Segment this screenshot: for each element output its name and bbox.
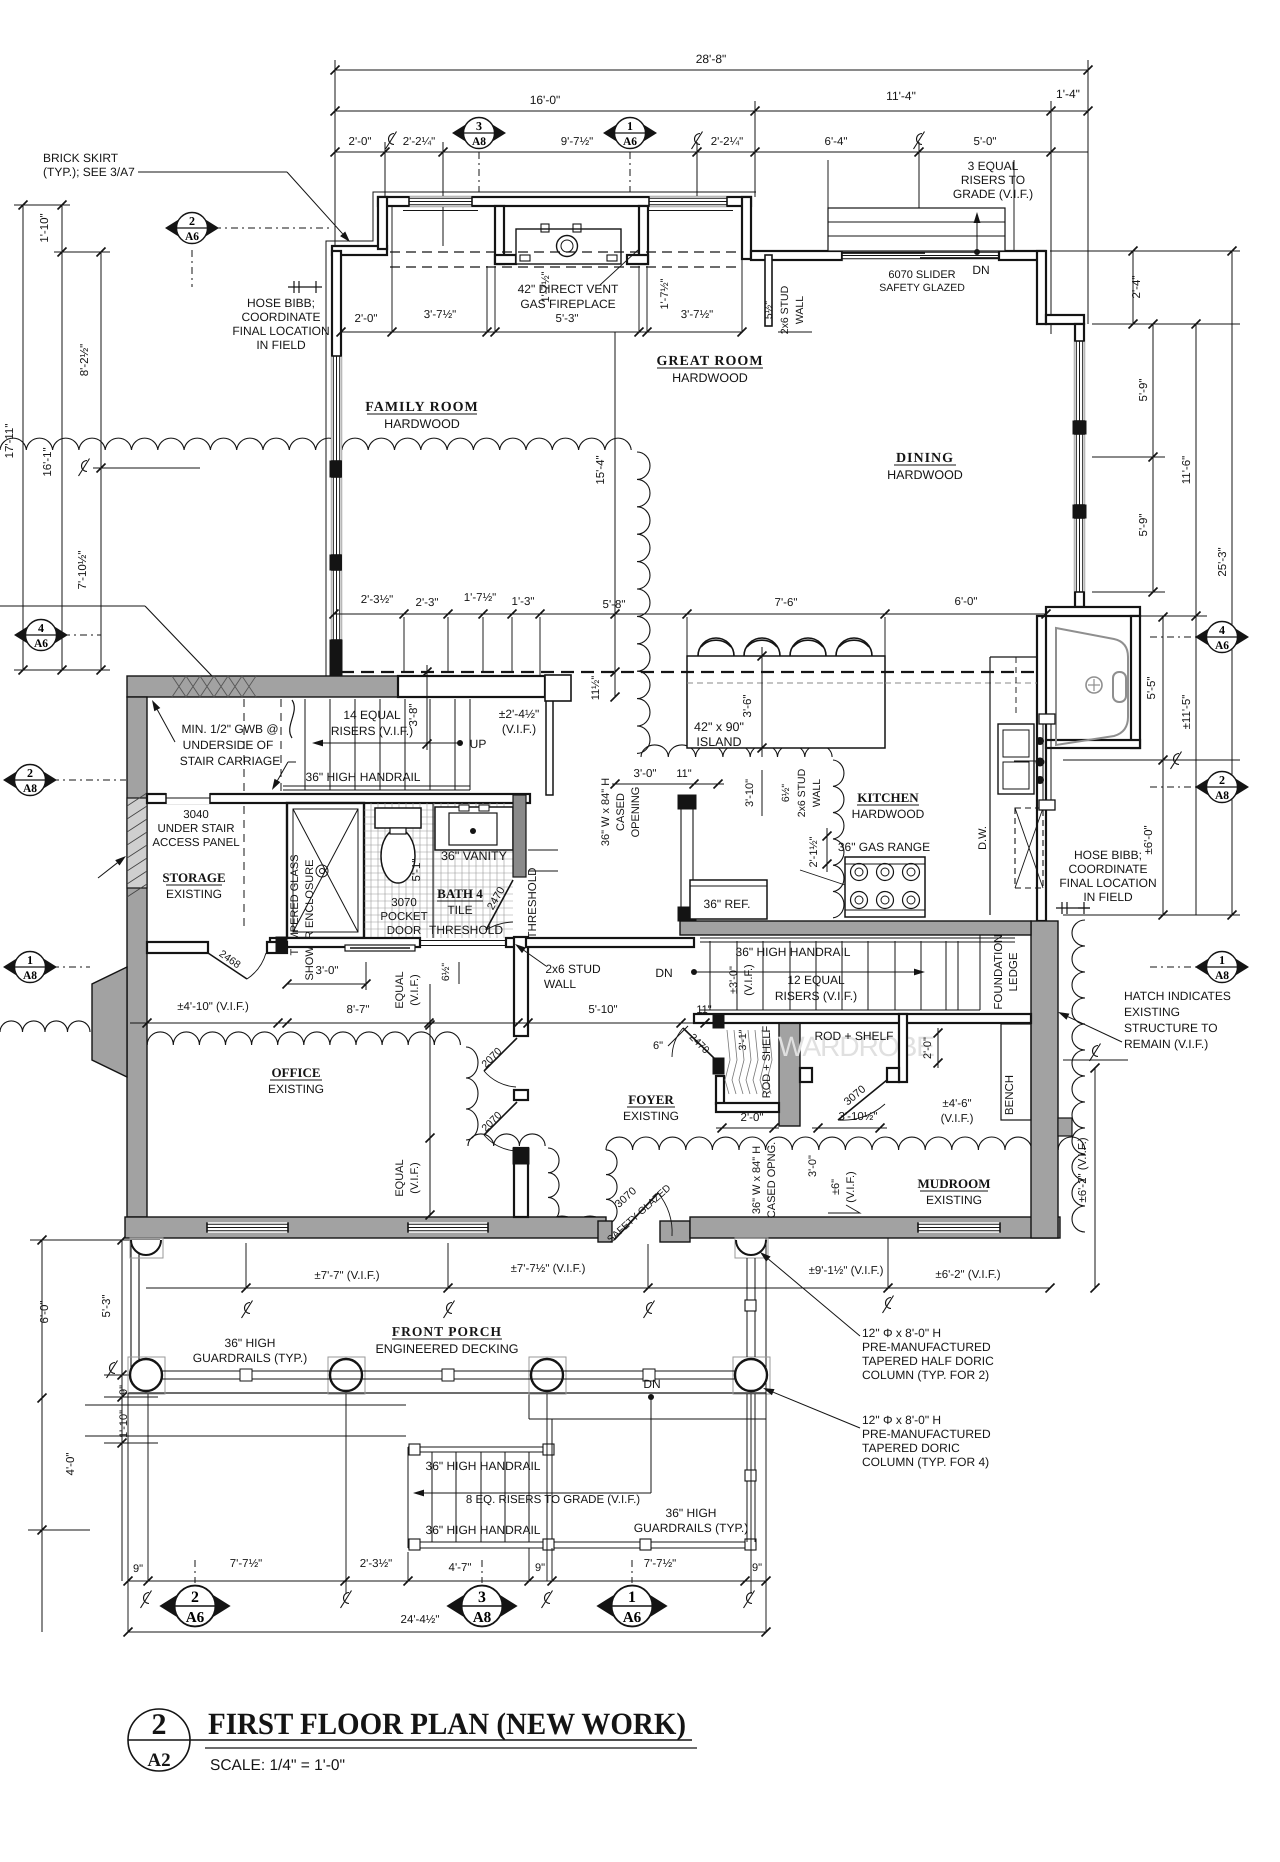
steps right guardrail bbox=[746, 1394, 748, 1542]
svg-text:2'-1½": 2'-1½" bbox=[808, 836, 820, 867]
porch half column NE bbox=[735, 1238, 768, 1258]
marker 3/A8 bottom bbox=[446, 1586, 517, 1627]
svg-text:CASED OPNG.: CASED OPNG. bbox=[766, 1142, 778, 1218]
svg-text:3'-7½": 3'-7½" bbox=[424, 309, 457, 321]
svg-text:±9'-1½" (V.I.F.): ±9'-1½" (V.I.F.) bbox=[809, 1265, 884, 1277]
svg-text:3'-0": 3'-0" bbox=[634, 768, 657, 780]
svg-text:2: 2 bbox=[1219, 773, 1225, 787]
mullion dining east b bbox=[1073, 505, 1086, 518]
stair handrail bbox=[283, 785, 470, 787]
svg-text:±2'-4½": ±2'-4½" bbox=[499, 707, 540, 721]
svg-text:WALL: WALL bbox=[544, 977, 577, 991]
svg-text:COORDINATE: COORDINATE bbox=[1068, 862, 1147, 876]
wall stub 2x6 great room bbox=[765, 255, 772, 326]
svg-text:BATH 4: BATH 4 bbox=[437, 886, 483, 901]
wall stair hall east stub bbox=[546, 697, 553, 795]
foyer dim line y1023 bbox=[130, 1022, 694, 1024]
top steps 3 risers bbox=[828, 208, 1005, 251]
island counter line bbox=[687, 682, 885, 684]
svg-text:IN FIELD: IN FIELD bbox=[1083, 890, 1133, 904]
marker 4/A6 left bbox=[14, 620, 68, 651]
dim 3'-0 and 11 kitchen bbox=[612, 783, 724, 785]
kitchen sink bbox=[998, 724, 1034, 794]
svg-text:6½": 6½" bbox=[780, 784, 792, 803]
svg-text:9": 9" bbox=[752, 1562, 762, 1574]
gray wall office south bbox=[125, 1217, 606, 1238]
svg-text:5'-9": 5'-9" bbox=[1138, 514, 1150, 537]
svg-text:6'-0": 6'-0" bbox=[39, 1301, 51, 1324]
window left wall 2 bbox=[331, 477, 341, 555]
svg-text:17'-11": 17'-11" bbox=[4, 424, 16, 459]
door 3070 closet2 bbox=[838, 1080, 887, 1120]
svg-text:EXISTING: EXISTING bbox=[1124, 1005, 1180, 1019]
porch column S3 bbox=[529, 1357, 566, 1394]
window top bay right bbox=[649, 196, 727, 206]
svg-text:HARDWOOD: HARDWOOD bbox=[672, 371, 748, 385]
closet2 walls bbox=[899, 1014, 907, 1082]
bottom dim ext verticals bbox=[127, 1393, 129, 1632]
steps handrail top bbox=[408, 1446, 552, 1448]
cloud kitchen horizontal bbox=[641, 745, 832, 757]
window dining east 1 bbox=[1074, 341, 1084, 421]
gray bay chimney left bbox=[92, 967, 127, 1077]
window office south 1 bbox=[207, 1222, 288, 1232]
svg-text:3'-6": 3'-6" bbox=[742, 695, 754, 718]
svg-text:36" HIGH HANDRAIL: 36" HIGH HANDRAIL bbox=[426, 1459, 541, 1473]
dim line 16'-0" / 11'-4" / 1'-4" bbox=[335, 110, 1088, 112]
door 2070 b bbox=[484, 1102, 517, 1135]
cloud family room horizontal bbox=[0, 438, 631, 450]
svg-text:36" W x 84" H: 36" W x 84" H bbox=[751, 1146, 763, 1214]
svg-text:BRICK SKIRT: BRICK SKIRT bbox=[43, 151, 119, 165]
porch grade lines bbox=[85, 1404, 406, 1406]
svg-text:3'-8": 3'-8" bbox=[408, 704, 420, 727]
svg-text:A8: A8 bbox=[473, 1610, 492, 1626]
svg-text:EXISTING: EXISTING bbox=[926, 1193, 982, 1207]
svg-text:4'-0": 4'-0" bbox=[65, 1453, 77, 1476]
svg-text:2'-3½": 2'-3½" bbox=[360, 1558, 393, 1570]
svg-text:1'-7½": 1'-7½" bbox=[540, 271, 552, 302]
svg-text:(V.I.F.): (V.I.F.) bbox=[845, 1171, 857, 1202]
svg-text:3'-10": 3'-10" bbox=[744, 779, 756, 807]
cloud family room vertical drop bbox=[637, 452, 650, 753]
porch dim centerlines bbox=[242, 1301, 253, 1319]
steps treads bbox=[407, 1447, 409, 1548]
section marker 1/A6 top bbox=[603, 118, 657, 149]
svg-text:28'-8": 28'-8" bbox=[696, 52, 727, 66]
right dim 11'-6" bbox=[1195, 324, 1197, 616]
svg-text:6": 6" bbox=[653, 1040, 663, 1052]
fireplace return right bbox=[639, 206, 648, 264]
gray wall front door jamb left bbox=[598, 1221, 612, 1242]
dashed header line bay bbox=[390, 251, 742, 253]
svg-text:OFFICE: OFFICE bbox=[271, 1065, 320, 1080]
right centerline sym bbox=[1171, 752, 1182, 770]
svg-text:11": 11" bbox=[696, 1004, 711, 1016]
dim vline equal office bbox=[429, 984, 431, 1215]
door 2468 storage bbox=[208, 953, 247, 979]
svg-text:7'-7½": 7'-7½" bbox=[230, 1558, 263, 1570]
svg-text:3070: 3070 bbox=[391, 897, 417, 909]
svg-text:TAPERED HALF DORIC: TAPERED HALF DORIC bbox=[862, 1354, 994, 1368]
svg-text:11'-4": 11'-4" bbox=[886, 89, 916, 103]
svg-text:ACCESS PANEL: ACCESS PANEL bbox=[152, 837, 240, 849]
tub room door opening bbox=[1039, 714, 1055, 724]
svg-text:UNDERSIDE OF: UNDERSIDE OF bbox=[183, 738, 274, 752]
right ext line y324 bbox=[1092, 323, 1240, 325]
porch guardrail south bbox=[162, 1370, 735, 1372]
svg-text:COLUMN (TYP. FOR 4): COLUMN (TYP. FOR 4) bbox=[862, 1455, 989, 1469]
svg-text:3'-1": 3'-1" bbox=[737, 1029, 749, 1050]
brick skirt outline bbox=[326, 192, 756, 676]
bottom dim centerlines bbox=[141, 1591, 152, 1609]
svg-text:±6": ±6" bbox=[830, 1179, 842, 1195]
svg-text:9": 9" bbox=[133, 1563, 143, 1575]
svg-text:1: 1 bbox=[628, 1588, 636, 1606]
svg-text:5'-10": 5'-10" bbox=[588, 1004, 617, 1016]
cloud mudroom east bbox=[1072, 920, 1085, 1232]
porch left edge bbox=[130, 1243, 132, 1380]
svg-text:SCALE: 1/4" = 1'-0": SCALE: 1/4" = 1'-0" bbox=[210, 1757, 345, 1774]
steps dn leader bbox=[648, 1394, 654, 1400]
svg-text:2'-0": 2'-0" bbox=[741, 1112, 764, 1124]
svg-text:(TYP.); SEE 3/A7: (TYP.); SEE 3/A7 bbox=[43, 165, 135, 179]
fireplace unit 42in bbox=[516, 229, 621, 264]
right ext line y251 bbox=[1050, 250, 1240, 252]
svg-text:15'-4": 15'-4" bbox=[595, 455, 607, 484]
svg-text:2'-0": 2'-0" bbox=[355, 313, 378, 325]
cloud kitchen vertical at range bbox=[833, 760, 844, 918]
svg-text:1'-10": 1'-10" bbox=[39, 213, 51, 242]
svg-text:ROD + SHELF: ROD + SHELF bbox=[814, 1029, 893, 1043]
svg-text:MIN. 1/2" GWB @: MIN. 1/2" GWB @ bbox=[181, 722, 278, 736]
mudroom bench bbox=[1001, 1024, 1031, 1120]
right dim 2'-4" bbox=[1132, 251, 1134, 324]
dashed line floor above bbox=[341, 671, 1037, 673]
svg-text:24'-4½": 24'-4½" bbox=[401, 1614, 440, 1626]
left dim bars bbox=[14, 204, 70, 206]
svg-text:5'-9": 5'-9" bbox=[1138, 379, 1150, 402]
svg-text:2: 2 bbox=[189, 214, 195, 228]
svg-text:36" HIGH HANDRAIL: 36" HIGH HANDRAIL bbox=[426, 1523, 541, 1537]
bottom overall dim 24'-4.5 bbox=[128, 1631, 766, 1633]
svg-text:DN: DN bbox=[643, 1377, 660, 1391]
svg-text:THRESHOLD: THRESHOLD bbox=[527, 868, 539, 939]
svg-text:12" Φ x 8'-0" H: 12" Φ x 8'-0" H bbox=[862, 1326, 941, 1340]
svg-text:2'-3½": 2'-3½" bbox=[361, 594, 394, 606]
island bbox=[687, 656, 885, 748]
svg-text:EQUAL: EQUAL bbox=[394, 1159, 406, 1196]
svg-text:DN: DN bbox=[972, 263, 989, 277]
door 2470 closet1 bbox=[683, 1028, 716, 1060]
svg-text:KITCHEN: KITCHEN bbox=[857, 790, 919, 805]
wall storage south bbox=[147, 942, 208, 953]
cloud office east drop bbox=[466, 1047, 478, 1140]
svg-text:PRE-MANUFACTURED: PRE-MANUFACTURED bbox=[862, 1340, 991, 1354]
kitchen counter right bbox=[989, 657, 991, 915]
svg-text:1'-3": 1'-3" bbox=[512, 596, 535, 608]
gray wall mudroom south bbox=[690, 1217, 1060, 1238]
svg-text:3'-7½": 3'-7½" bbox=[681, 309, 714, 321]
dishwasher bbox=[1015, 808, 1043, 888]
svg-text:9": 9" bbox=[535, 1562, 545, 1574]
storage dashed lines bbox=[243, 699, 245, 793]
wall family room south band bbox=[398, 676, 545, 697]
wall dining NE vertical bbox=[1037, 251, 1046, 324]
title rule bbox=[128, 1739, 692, 1741]
svg-text:A6: A6 bbox=[623, 136, 637, 148]
shower enclosure bbox=[287, 803, 364, 938]
left dim vline x62 bbox=[61, 205, 63, 670]
svg-text:5'-1": 5'-1" bbox=[411, 859, 423, 882]
svg-text:11'-6": 11'-6" bbox=[1181, 456, 1193, 484]
wall bath north bbox=[147, 794, 530, 803]
svg-text:2: 2 bbox=[191, 1588, 199, 1606]
svg-text:A6: A6 bbox=[34, 638, 48, 650]
svg-text:±7'-7" (V.I.F.): ±7'-7" (V.I.F.) bbox=[314, 1270, 379, 1282]
dim 3'-6 island bbox=[761, 647, 763, 757]
gray wall closet center bbox=[779, 1014, 800, 1126]
wall tub room south bbox=[1046, 740, 1140, 748]
svg-text:GRADE (V.I.F.): GRADE (V.I.F.) bbox=[953, 187, 1033, 201]
hatch leader bbox=[1068, 1017, 1122, 1042]
dim ext verticals y614 bbox=[403, 617, 405, 672]
svg-text:3 EQUAL: 3 EQUAL bbox=[968, 159, 1019, 173]
svg-text:6'-0": 6'-0" bbox=[955, 596, 978, 608]
svg-text:±4'-10" (V.I.F.): ±4'-10" (V.I.F.) bbox=[177, 1001, 249, 1013]
marker 2/A6 bottom bbox=[159, 1586, 230, 1627]
porch right guardrail bbox=[746, 1258, 748, 1357]
svg-text:9'-7½": 9'-7½" bbox=[561, 136, 594, 148]
svg-text:(V.I.F.): (V.I.F.) bbox=[409, 974, 421, 1005]
wall closets north bbox=[694, 1014, 1031, 1023]
left dim vline x101 bbox=[100, 252, 102, 670]
column note 1 leader bbox=[768, 1259, 860, 1336]
wall left exterior bbox=[332, 251, 341, 676]
dim line y332 bbox=[341, 331, 742, 333]
svg-text:5'-3": 5'-3" bbox=[556, 313, 579, 325]
section marker 3/A8 top bbox=[452, 118, 506, 149]
svg-text:7'-10½": 7'-10½" bbox=[77, 551, 89, 590]
svg-text:(V.I.F.): (V.I.F.) bbox=[743, 964, 755, 995]
left dim vline x23 bbox=[22, 205, 24, 670]
hatch panel left wall bbox=[127, 798, 147, 888]
svg-text:4: 4 bbox=[38, 621, 44, 635]
svg-text:8'-2½": 8'-2½" bbox=[79, 344, 91, 377]
svg-text:12" Φ x 8'-0" H: 12" Φ x 8'-0" H bbox=[862, 1413, 941, 1427]
svg-text:MUDROOM: MUDROOM bbox=[918, 1176, 991, 1191]
svg-text:DINING: DINING bbox=[896, 451, 954, 466]
hose bibb symbol left bbox=[288, 286, 322, 288]
svg-text:±6'-2" (V.I.F.): ±6'-2" (V.I.F.) bbox=[1077, 1137, 1089, 1202]
svg-text:6070 SLIDER: 6070 SLIDER bbox=[888, 269, 955, 281]
gray block foundation step bbox=[1058, 1118, 1072, 1136]
opening access panel bbox=[166, 792, 210, 804]
svg-text:2x6 STUD: 2x6 STUD bbox=[796, 768, 808, 817]
svg-text:A8: A8 bbox=[472, 136, 486, 148]
svg-text:STRUCTURE TO: STRUCTURE TO bbox=[1124, 1021, 1218, 1035]
bath door 2470 bbox=[486, 880, 513, 930]
svg-text:5'-0": 5'-0" bbox=[974, 136, 997, 148]
svg-text:SHOWER ENCLOSURE: SHOWER ENCLOSURE bbox=[304, 859, 316, 980]
svg-text:A2: A2 bbox=[147, 1750, 170, 1771]
svg-text:IN FIELD: IN FIELD bbox=[256, 338, 306, 352]
svg-text:DOOR: DOOR bbox=[387, 925, 422, 937]
svg-text:TILE: TILE bbox=[447, 903, 472, 917]
dim row 3 right segment bbox=[755, 151, 1088, 153]
svg-text:GUARDRAILS (TYP.): GUARDRAILS (TYP.) bbox=[634, 1521, 748, 1535]
cloud left bay bbox=[0, 1021, 90, 1032]
gwb note arrows bbox=[157, 710, 175, 742]
vanity 36in bbox=[435, 807, 513, 850]
sill top bay right bbox=[643, 210, 733, 212]
right ext line y592 bbox=[1092, 591, 1165, 593]
svg-text:8'-7": 8'-7" bbox=[347, 1004, 370, 1016]
svg-text:±6'-2" (V.I.F.): ±6'-2" (V.I.F.) bbox=[935, 1269, 1000, 1281]
marker 4/A6 right bbox=[1195, 622, 1249, 653]
svg-text:REMAIN (V.I.F.): REMAIN (V.I.F.) bbox=[1124, 1037, 1208, 1051]
svg-text:4'-7": 4'-7" bbox=[449, 1562, 472, 1574]
kitchen diagonal leader bbox=[800, 870, 845, 885]
svg-text:16'-1": 16'-1" bbox=[42, 447, 54, 476]
svg-text:FINAL LOCATION: FINAL LOCATION bbox=[232, 324, 329, 338]
svg-text:2: 2 bbox=[27, 766, 33, 780]
svg-text:STORAGE: STORAGE bbox=[162, 870, 225, 885]
right dim 5'-9" x2 bbox=[1152, 324, 1154, 592]
svg-text:1'-4": 1'-4" bbox=[1056, 87, 1080, 101]
svg-text:ENGINEERED DECKING: ENGINEERED DECKING bbox=[375, 1342, 518, 1356]
threshold strip lines bbox=[528, 849, 558, 851]
svg-text:COORDINATE: COORDINATE bbox=[241, 310, 320, 324]
svg-text:5'-5": 5'-5" bbox=[1146, 677, 1158, 700]
wall slider left stub bbox=[751, 251, 842, 260]
wall slider right stub bbox=[999, 251, 1045, 260]
svg-text:EQUAL: EQUAL bbox=[394, 971, 406, 1008]
svg-text:2x6 STUD: 2x6 STUD bbox=[779, 285, 791, 334]
svg-text:3'-0": 3'-0" bbox=[807, 1155, 819, 1177]
svg-text:HARDWOOD: HARDWOOD bbox=[852, 807, 925, 821]
svg-text:POCKET: POCKET bbox=[380, 911, 427, 923]
closet1 box bbox=[713, 1014, 724, 1028]
bath tile grid bbox=[364, 809, 513, 811]
svg-text:WALL: WALL bbox=[794, 296, 806, 324]
window mudroom south bbox=[918, 1222, 1000, 1232]
svg-text:3: 3 bbox=[476, 119, 482, 133]
stair up arrow bbox=[323, 742, 458, 744]
dim 2'-0 mudroom bbox=[937, 1028, 939, 1068]
svg-text:FAMILY ROOM: FAMILY ROOM bbox=[365, 400, 479, 415]
right dim 6'-2 vif rot bbox=[1094, 1068, 1096, 1288]
svg-text:7'-6": 7'-6" bbox=[775, 597, 798, 609]
svg-text:ROD + SHELF: ROD + SHELF bbox=[761, 1026, 773, 1099]
fridge bbox=[690, 880, 767, 919]
svg-text:A8: A8 bbox=[1215, 970, 1229, 982]
svg-text:2'-4": 2'-4" bbox=[1131, 276, 1143, 299]
tub bbox=[1056, 628, 1128, 745]
svg-text:RISERS (V.I.F.): RISERS (V.I.F.) bbox=[331, 724, 413, 738]
brick skirt leader bbox=[138, 171, 287, 173]
svg-text:4: 4 bbox=[1219, 623, 1225, 637]
dim ext verticals y332 bbox=[391, 206, 393, 332]
right ext line y760 bbox=[1063, 759, 1240, 761]
svg-text:LEDGE: LEDGE bbox=[1008, 952, 1020, 991]
wall bath south bbox=[270, 938, 420, 947]
svg-text:6½": 6½" bbox=[440, 963, 452, 982]
crosshatch stair band bbox=[172, 676, 186, 697]
svg-text:FRONT PORCH: FRONT PORCH bbox=[392, 1324, 502, 1339]
svg-text:UP: UP bbox=[470, 737, 487, 751]
porch line second bbox=[529, 1418, 766, 1420]
wall dining east window wall bbox=[1075, 324, 1084, 607]
svg-text:5½": 5½" bbox=[763, 301, 775, 320]
svg-text:36" HIGH: 36" HIGH bbox=[666, 1506, 717, 1520]
hose bibb symbol right bbox=[1056, 907, 1090, 909]
svg-text:±11'-5": ±11'-5" bbox=[1181, 695, 1193, 730]
svg-text:2x6 STUD: 2x6 STUD bbox=[545, 962, 601, 976]
wall top-left step horizontal bbox=[332, 246, 387, 255]
svg-text:FOYER: FOYER bbox=[628, 1092, 674, 1107]
wall top-left step vertical bbox=[378, 197, 387, 249]
dim 15'-4 vline bbox=[614, 332, 616, 697]
steps handrail bottom bbox=[408, 1541, 754, 1543]
left centerline sym bbox=[79, 459, 90, 477]
wall dining SE step bbox=[1046, 607, 1140, 616]
svg-text:2'-3": 2'-3" bbox=[416, 597, 439, 609]
svg-text:6'-4": 6'-4" bbox=[825, 136, 848, 148]
stair treads up bbox=[304, 699, 306, 790]
svg-text:36" GAS RANGE: 36" GAS RANGE bbox=[838, 840, 930, 854]
svg-text:36" HIGH HANDRAIL: 36" HIGH HANDRAIL bbox=[736, 945, 851, 959]
svg-text:GREAT ROOM: GREAT ROOM bbox=[656, 354, 763, 369]
slider 6070 bbox=[842, 250, 999, 260]
svg-text:EXISTING: EXISTING bbox=[268, 1082, 324, 1096]
porch dim line y1288 bbox=[146, 1287, 1050, 1289]
svg-text:5'-8": 5'-8" bbox=[603, 599, 626, 611]
left bottom bars bbox=[30, 1239, 160, 1241]
mullion block left wall b bbox=[330, 555, 341, 570]
svg-text:2'-0": 2'-0" bbox=[349, 136, 372, 148]
svg-text:EXISTING: EXISTING bbox=[623, 1109, 679, 1123]
wall foyer west upper bbox=[514, 937, 528, 1036]
svg-text:EXISTING: EXISTING bbox=[166, 887, 222, 901]
svg-text:HATCH INDICATES: HATCH INDICATES bbox=[1124, 989, 1231, 1003]
svg-text:2'-2¼": 2'-2¼" bbox=[403, 136, 436, 148]
bottom dim line y1581 bbox=[128, 1580, 766, 1582]
stair break S bbox=[290, 700, 295, 738]
svg-text:GAS FIREPLACE: GAS FIREPLACE bbox=[520, 297, 615, 311]
island stools bbox=[698, 638, 734, 656]
svg-text:±7'-7½" (V.I.F.): ±7'-7½" (V.I.F.) bbox=[511, 1263, 586, 1275]
wall top bay right corner bbox=[742, 197, 751, 259]
right ext line y457 bbox=[1092, 456, 1165, 458]
pocket door bbox=[345, 945, 415, 951]
svg-text:PRE-MANUFACTURED: PRE-MANUFACTURED bbox=[862, 1427, 991, 1441]
gray wall mudroom-kitchen east bbox=[1031, 921, 1058, 1238]
marker 1/A8 left bbox=[3, 952, 57, 983]
wall tub room east bbox=[1131, 616, 1140, 748]
svg-text:CASED: CASED bbox=[615, 793, 627, 831]
svg-text:D.W.: D.W. bbox=[977, 826, 989, 850]
wall foyer west lower bbox=[514, 1090, 528, 1100]
svg-text:3040: 3040 bbox=[183, 809, 209, 821]
svg-text:12 EQUAL: 12 EQUAL bbox=[787, 973, 845, 987]
kitchen upper cab dash bbox=[1015, 657, 1017, 713]
gray wall stair south band bbox=[127, 676, 398, 697]
svg-text:UNDER STAIR: UNDER STAIR bbox=[157, 823, 234, 835]
right dim 25'-3" bbox=[1231, 251, 1233, 915]
cloud foyer underside bbox=[468, 1134, 545, 1146]
svg-text:16'-0": 16'-0" bbox=[530, 93, 561, 107]
